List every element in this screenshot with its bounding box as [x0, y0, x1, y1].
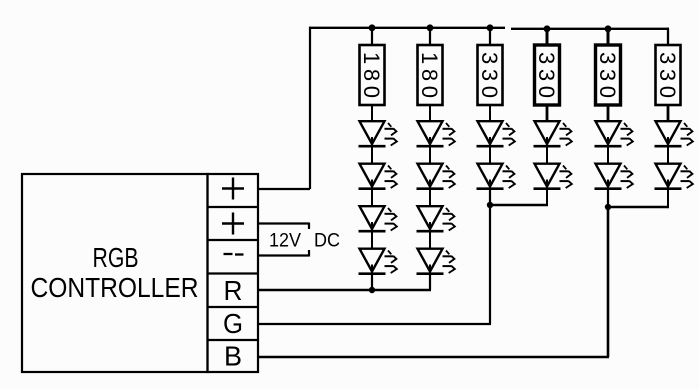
svg-text:330: 330 [655, 52, 680, 98]
LED D5 [417, 121, 455, 146]
wire D16 to blue join [667, 189, 669, 208]
svg-text:12V: 12V [269, 231, 301, 252]
wire G bus from controller G to column 3 [259, 323, 491, 325]
wire D15-D16 [667, 146, 669, 164]
svg-text:B: B [224, 341, 242, 372]
wire blue join columns 5-6 [608, 206, 669, 208]
resistor R5 330 [595, 45, 621, 105]
wire B bus from controller B to column 5 [259, 356, 609, 359]
LED D9 [477, 121, 515, 146]
LED D10 [477, 164, 515, 189]
wire resistor R1 to LED D1 [371, 105, 373, 122]
wire green drop column 3 down [489, 205, 491, 324]
svg-text:G: G [223, 308, 243, 339]
wire D5-D6 [429, 146, 431, 164]
terminal pin G (row 5) [223, 308, 243, 339]
wire from + terminal to top rail riser [259, 188, 310, 190]
junction dot on top rail at column 1 [369, 24, 376, 31]
wire stub 12V+ (row 2) with bracket tick [259, 223, 309, 230]
wire D9-D10 [489, 146, 491, 164]
svg-text:330: 330 [595, 52, 620, 98]
svg-text:CONTROLLER: CONTROLLER [31, 272, 199, 303]
wire D3-D4 [371, 231, 373, 249]
LED D11 [534, 121, 572, 146]
wire D12 to green join [546, 189, 548, 206]
wire top rail left segment [309, 27, 505, 29]
wire R bus from controller R to column 2 [259, 289, 431, 292]
wire rail to resistor R4 [546, 29, 549, 45]
terminal pin + (V+ output, row 1) [222, 178, 244, 200]
svg-text:330: 330 [477, 52, 502, 98]
svg-text:DC: DC [314, 231, 340, 252]
label 12V [269, 231, 301, 252]
junction dot on top rail at column 4 [544, 25, 551, 32]
label RGB (controller line 1) [93, 242, 139, 273]
wire D8 to R bus [429, 274, 431, 291]
LED D3 [359, 206, 397, 231]
junction dot on top rail at column 2 [427, 24, 434, 31]
wire resistor R4 to LED D11 [546, 105, 549, 122]
wire top rail right segment [511, 28, 669, 30]
LED D14 [595, 164, 633, 189]
resistor R6 330 [655, 45, 681, 105]
resistor R3 330 [477, 45, 503, 105]
terminal pin B (row 6) [224, 341, 242, 372]
junction dot on top rail at column 3 [487, 24, 494, 31]
wire resistor R2 to LED D5 [429, 105, 431, 122]
LED D8 [417, 249, 455, 274]
wire stub 12V- (row 3) with bracket tick [259, 250, 309, 257]
LED D12 [534, 164, 572, 189]
svg-text:RGB: RGB [93, 242, 139, 273]
wire D11-D12 [546, 146, 548, 164]
svg-text:180: 180 [359, 52, 384, 98]
svg-text:330: 330 [534, 52, 559, 98]
wire resistor R5 to LED D13 [607, 105, 610, 122]
junction dot blue join at column 5 [605, 204, 611, 210]
svg-text:R: R [224, 275, 243, 306]
junction dot green join at column 3 [487, 202, 493, 208]
wire D4 to R bus [371, 274, 373, 291]
wire rail to resistor R2 [429, 28, 431, 45]
terminal pin + (12V input, row 2) [222, 213, 244, 235]
junction dot R bus at column 1 [369, 287, 375, 293]
wire blue drop column 5 down [607, 207, 610, 357]
resistor R2 180 [417, 45, 443, 105]
LED D6 [417, 164, 455, 189]
wire resistor R3 to LED D9 [489, 105, 491, 122]
LED D13 [595, 121, 633, 146]
svg-text:180: 180 [417, 52, 442, 98]
wire rail to resistor R1 [371, 28, 373, 45]
wire D14 to blue join [607, 189, 609, 208]
controller box U1 body [22, 174, 208, 372]
wire D1-D2 [371, 146, 373, 164]
wire green join columns 3-4 [490, 204, 548, 206]
LED D4 [359, 249, 397, 274]
wire riser x=310 up to top rail [309, 27, 311, 189]
LED D7 [417, 206, 455, 231]
label CONTROLLER (controller line 2) [31, 272, 199, 303]
LED D15 [655, 121, 693, 146]
wire rail corner down to resistor R6 [668, 29, 669, 45]
junction dot on top rail at column 5 [605, 25, 612, 32]
LED D1 [359, 121, 397, 146]
terminal pin R (row 4) [224, 275, 243, 306]
LED D16 [655, 164, 693, 189]
wire rail to resistor R3 [489, 28, 491, 45]
wire resistor R6 to LED D15 [667, 105, 670, 122]
wire D13-D14 [607, 146, 609, 164]
label DC [314, 231, 340, 252]
resistor R4 330 [534, 45, 560, 105]
LED D2 [359, 164, 397, 189]
resistor R1 180 [359, 45, 385, 105]
wire D10 to green join [489, 189, 491, 206]
wire D2-D3 [371, 189, 373, 207]
terminal strip of controller [208, 174, 259, 372]
terminal pin - (12V input, row 3) [224, 253, 244, 256]
wire D6-D7 [429, 189, 431, 207]
wire rail to resistor R5 [607, 29, 610, 45]
wire D7-D8 [429, 231, 431, 249]
